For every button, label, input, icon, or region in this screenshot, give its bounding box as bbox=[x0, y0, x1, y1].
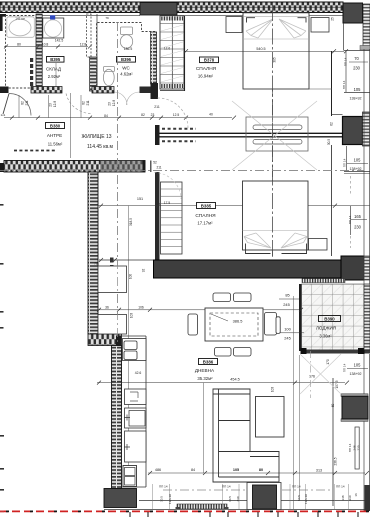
east wall window boundary bedroom2 bbox=[344, 171, 370, 173]
pillow corner brackets bbox=[247, 18, 307, 23]
svg-text:230: 230 bbox=[353, 66, 361, 71]
bottom wall hatch under storage bbox=[31, 87, 62, 94]
bedroom1 pillow right (fan) bbox=[279, 19, 306, 38]
east wall window boundary lines bedroom1 bbox=[344, 50, 370, 52]
bedroom2 label box В385 bbox=[197, 203, 216, 209]
kitchen fridge bbox=[125, 431, 147, 462]
bathtub bbox=[7, 17, 35, 38]
east facade edge lines bbox=[363, 49, 365, 284]
loggia label box В390 bbox=[319, 316, 341, 322]
left exterior wall upper segment (hatched) bbox=[88, 172, 98, 334]
svg-text:170: 170 bbox=[326, 359, 330, 365]
svg-text:2.92м²: 2.92м² bbox=[48, 74, 61, 79]
svg-text:ЖИЛИЩЕ 13: ЖИЛИЩЕ 13 bbox=[81, 134, 111, 140]
bedroom1 nightstand right bbox=[311, 18, 329, 33]
svg-text:12.8: 12.8 bbox=[112, 100, 116, 106]
bedroom1 nightstand left bbox=[226, 17, 242, 33]
svg-text:10.8: 10.8 bbox=[42, 42, 49, 46]
svg-text:230: 230 bbox=[357, 445, 361, 450]
dining chairs top bbox=[213, 293, 231, 302]
svg-text:10.5: 10.5 bbox=[160, 496, 164, 502]
svg-text:79: 79 bbox=[105, 16, 109, 20]
storage dimension line bbox=[4, 45, 92, 49]
svg-text:11.56м²: 11.56м² bbox=[48, 141, 63, 146]
loggia corner posts bbox=[301, 348, 307, 354]
east hatched strip at column bbox=[363, 112, 370, 146]
svg-text:ПП 14: ПП 14 bbox=[222, 485, 231, 489]
svg-text:92: 92 bbox=[142, 269, 146, 273]
east hatch next to band B bbox=[364, 256, 370, 280]
bottom wall hatch under WC left bbox=[92, 87, 114, 94]
svg-text:23: 23 bbox=[151, 113, 155, 117]
left exterior wall lower segment (hatched) bbox=[112, 346, 122, 489]
red section line bottom bbox=[0, 510, 370, 512]
loggia floor grid bbox=[302, 284, 364, 351]
svg-text:305: 305 bbox=[273, 57, 277, 63]
svg-text:82: 82 bbox=[21, 101, 25, 105]
svg-text:10.5: 10.5 bbox=[297, 495, 301, 501]
extension line below loggia wall bbox=[299, 355, 301, 500]
bedroom1 dimension line 540.5 bbox=[184, 50, 344, 52]
svg-text:105: 105 bbox=[354, 363, 362, 368]
bottom wall lines bbox=[139, 500, 370, 502]
wall between bathroom and storage (hatched) bbox=[36, 14, 42, 89]
svg-text:ПП 14: ПП 14 bbox=[348, 215, 352, 224]
sofa L-shape bbox=[213, 389, 279, 482]
svg-text:17.5: 17.5 bbox=[164, 201, 170, 205]
svg-text:3.36м²: 3.36м² bbox=[319, 334, 332, 339]
dining table bbox=[205, 308, 263, 341]
svg-text:105: 105 bbox=[233, 468, 239, 472]
dark wall band right raised segment bbox=[341, 256, 364, 280]
WC east wall hatched bbox=[151, 32, 157, 84]
blue fixture mark bbox=[50, 15, 55, 19]
svg-text:70: 70 bbox=[354, 56, 359, 61]
svg-text:40: 40 bbox=[209, 113, 213, 117]
svg-text:151: 151 bbox=[137, 197, 143, 201]
svg-text:80: 80 bbox=[17, 42, 21, 46]
loggia west wall bbox=[299, 284, 302, 351]
WC door double arc bbox=[114, 92, 140, 105]
svg-text:454.5: 454.5 bbox=[230, 378, 240, 382]
svg-text:245: 245 bbox=[284, 336, 291, 341]
boiler box in storage bbox=[43, 18, 64, 38]
svg-text:165: 165 bbox=[354, 214, 362, 219]
svg-text:ДНЕВНА: ДНЕВНА bbox=[195, 368, 215, 373]
svg-text:1х1: 1х1 bbox=[1, 113, 6, 117]
kitchen sink unit bbox=[123, 339, 147, 361]
bedroom2 foot brackets bbox=[246, 244, 307, 254]
window glazing dashed bedroom2 bbox=[350, 206, 352, 235]
svg-text:42.6: 42.6 bbox=[135, 371, 142, 375]
svg-text:ПП 14: ПП 14 bbox=[343, 158, 347, 167]
svg-text:СКЛАД: СКЛАД bbox=[46, 67, 61, 72]
extension line x203 bbox=[203, 383, 205, 473]
svg-text:ЛОДЖИЯ: ЛОДЖИЯ bbox=[316, 326, 336, 331]
kitchen tall cabinet 2 bbox=[98, 315, 127, 335]
bottom wall of small rooms: left black segment bbox=[0, 87, 9, 94]
svg-text:148: 148 bbox=[341, 495, 345, 500]
band end post bbox=[143, 161, 146, 173]
svg-text:12.8: 12.8 bbox=[53, 101, 57, 107]
svg-text:В385: В385 bbox=[201, 203, 212, 208]
loggia door leaf bbox=[276, 317, 280, 334]
bedroom2 dimension line bbox=[98, 205, 370, 207]
bottom dimension line mid bbox=[148, 472, 365, 474]
lintel line left of column bbox=[332, 114, 343, 116]
svg-text:100: 100 bbox=[129, 274, 133, 280]
corridor dimension line bbox=[4, 117, 232, 119]
X cross over closet zone bbox=[232, 101, 317, 170]
svg-text:ПП 14: ПП 14 bbox=[343, 363, 347, 372]
sliding door track dashes bbox=[162, 128, 196, 130]
bedroom1 label box В378 bbox=[200, 57, 219, 63]
svg-text:138+92: 138+92 bbox=[349, 97, 361, 101]
bedroom2 west wall bbox=[155, 172, 160, 260]
dining chairs bottom bbox=[215, 348, 232, 357]
bedroom2 wardrobe bbox=[161, 182, 183, 254]
svg-text:16: 16 bbox=[354, 493, 358, 497]
living room label box В386 bbox=[199, 359, 218, 365]
shaft bottom line bbox=[160, 90, 185, 92]
living dimension line 454.5/176 bbox=[97, 382, 345, 384]
bedroom2 pillow zone line bbox=[243, 230, 309, 232]
leader line below storage label bbox=[55, 63, 57, 87]
dining chair right bbox=[265, 313, 277, 336]
svg-text:105: 105 bbox=[354, 87, 362, 92]
bathroom tiled wall (dashed) bbox=[6, 16, 37, 89]
svg-text:АНТРЕ: АНТРЕ bbox=[47, 133, 62, 138]
bedroom1 west wall line bbox=[184, 16, 186, 91]
axis overlays bbox=[117, 22, 119, 345]
hallway south hatched wall band bbox=[4, 161, 145, 173]
svg-text:82: 82 bbox=[82, 101, 86, 105]
svg-text:В395: В395 bbox=[50, 57, 61, 62]
svg-text:211: 211 bbox=[86, 100, 90, 105]
bedroom2 door swing arc bbox=[154, 172, 181, 199]
svg-text:4.62м²: 4.62м² bbox=[120, 71, 133, 76]
main dark wall band between bedroom2 and living bbox=[154, 260, 346, 278]
WC east wall black post bbox=[151, 83, 159, 99]
axis line horizontal bottom (dash-dot) bbox=[163, 489, 332, 491]
dining dimension line bbox=[97, 309, 299, 311]
bedroom1 pillow left (fan) bbox=[246, 19, 273, 38]
svg-text:35.32м²: 35.32м² bbox=[197, 376, 213, 381]
svg-text:103: 103 bbox=[130, 313, 134, 319]
svg-text:386.5: 386.5 bbox=[233, 319, 243, 324]
svg-text:236.5: 236.5 bbox=[334, 457, 338, 465]
bottom window sill bbox=[177, 504, 227, 509]
entry door arc bbox=[9, 94, 31, 116]
svg-text:211: 211 bbox=[156, 166, 161, 170]
svg-text:17.17м²: 17.17м² bbox=[197, 221, 213, 226]
svg-text:78: 78 bbox=[94, 262, 98, 266]
svg-text:23: 23 bbox=[49, 103, 53, 107]
loggia axis below bbox=[310, 351, 312, 398]
svg-text:12.6: 12.6 bbox=[164, 47, 170, 51]
svg-text:12.5: 12.5 bbox=[173, 113, 180, 117]
bedroom2 nightstand right bbox=[309, 239, 328, 251]
bottom wall black segment right of WC door bbox=[140, 87, 151, 94]
ventilation shaft bbox=[160, 16, 184, 89]
svg-text:130+92: 130+92 bbox=[168, 494, 172, 504]
top wall dark segment above WC/shaft bbox=[140, 3, 177, 16]
left margin small marks bbox=[0, 204, 4, 491]
svg-text:62: 62 bbox=[330, 122, 334, 126]
storage room label box В395 bbox=[47, 57, 65, 63]
loggia east hatched wall bbox=[364, 284, 370, 350]
svg-text:23: 23 bbox=[108, 102, 112, 106]
axis line vertical C through bedrooms bbox=[272, 5, 274, 258]
kitchen unit with inner square bbox=[125, 408, 147, 428]
svg-text:В378: В378 bbox=[204, 58, 215, 63]
bedroom2 bed bbox=[243, 181, 309, 250]
svg-text:30.5: 30.5 bbox=[327, 139, 331, 145]
svg-text:245: 245 bbox=[283, 302, 290, 307]
svg-text:В390: В390 bbox=[324, 316, 335, 321]
svg-text:ПП 14: ПП 14 bbox=[344, 57, 348, 66]
svg-text:211: 211 bbox=[154, 105, 160, 109]
bedroom1 pillow zone line bbox=[243, 38, 309, 40]
svg-text:52: 52 bbox=[153, 161, 157, 165]
dimension chain line x128.5 bbox=[128, 206, 130, 473]
svg-text:230: 230 bbox=[236, 496, 240, 501]
wall jog connector bbox=[88, 334, 122, 346]
block edge line bbox=[343, 23, 345, 51]
kitchen double oven unit bbox=[123, 466, 137, 487]
svg-text:186.5: 186.5 bbox=[124, 47, 133, 51]
corridor door jamb marks bbox=[110, 258, 114, 263]
bedroom1 bed head line bbox=[243, 16, 309, 18]
kitchen counter edge bbox=[145, 336, 147, 487]
dining chair left bbox=[188, 314, 198, 335]
svg-text:105: 105 bbox=[354, 158, 362, 163]
storage door arc bbox=[66, 94, 92, 114]
bathroom sliding door marks bbox=[30, 58, 33, 86]
wardrobe on partition bbox=[246, 117, 308, 151]
svg-text:84: 84 bbox=[191, 468, 195, 472]
svg-text:80: 80 bbox=[259, 468, 263, 472]
svg-text:ПП 14: ПП 14 bbox=[336, 485, 345, 489]
bathroom corner wall top-left bbox=[0, 14, 6, 31]
hallway closet dashed row bbox=[14, 150, 55, 152]
leader lines door tags bbox=[18, 95, 20, 118]
boiler circle bbox=[44, 20, 61, 37]
hallway label box В380 bbox=[46, 123, 65, 129]
svg-text:157.5: 157.5 bbox=[335, 380, 339, 388]
east concrete column mid bbox=[343, 117, 363, 145]
svg-text:230: 230 bbox=[348, 495, 352, 500]
svg-text:25: 25 bbox=[331, 17, 335, 21]
X mark below loggia bbox=[300, 354, 341, 394]
axis line vertical A (dash-dot) bbox=[117, 22, 119, 345]
WC bidet left bbox=[103, 67, 114, 86]
concrete column top-right bbox=[343, 3, 363, 23]
svg-text:142 см: 142 см bbox=[15, 17, 24, 21]
svg-text:313: 313 bbox=[316, 469, 322, 473]
bedroom2 pillow left (fan) bbox=[244, 233, 271, 248]
svg-text:В380: В380 bbox=[50, 123, 61, 128]
coffee table bbox=[256, 397, 285, 438]
exterior wall top hatched band bbox=[0, 2, 343, 13]
bedroom1 east wall face bbox=[331, 51, 333, 116]
kitchen tall cabinet 1 bbox=[98, 266, 127, 293]
svg-text:114.45 кв.м: 114.45 кв.м bbox=[87, 144, 114, 150]
loggia bottom wall bbox=[301, 350, 370, 354]
door leaf at bedroom2 entry bbox=[150, 161, 152, 173]
svg-text:ПП 14: ПП 14 bbox=[159, 485, 168, 489]
bedroom1 bed bbox=[243, 13, 309, 89]
WC label box В396 bbox=[117, 57, 136, 63]
svg-text:176: 176 bbox=[309, 375, 315, 379]
living east wall interior line bbox=[332, 378, 334, 506]
svg-text:85: 85 bbox=[285, 293, 289, 298]
concrete block bottom of left wall bbox=[104, 489, 137, 508]
svg-text:СПАЛНЯ: СПАЛНЯ bbox=[195, 213, 216, 219]
jog corner block bbox=[116, 336, 122, 346]
east wall face below column bbox=[331, 145, 333, 256]
svg-text:36: 36 bbox=[105, 306, 109, 310]
svg-text:318.5: 318.5 bbox=[129, 218, 133, 226]
bed1 foot line bbox=[243, 88, 332, 90]
extension line x70.5 bbox=[70, 93, 72, 158]
svg-text:230: 230 bbox=[354, 225, 362, 230]
svg-text:103: 103 bbox=[271, 387, 275, 393]
kitchen stove bbox=[125, 389, 147, 405]
partition wall bedroom1/bedroom2 bbox=[155, 125, 343, 145]
svg-text:ПП 14: ПП 14 bbox=[342, 80, 346, 89]
svg-text:84: 84 bbox=[104, 114, 108, 118]
svg-text:12.8: 12.8 bbox=[80, 42, 87, 46]
svg-text:10.5: 10.5 bbox=[228, 496, 232, 502]
corridor bottom line bbox=[99, 259, 156, 261]
axis line horizontal (dash-dot) bbox=[0, 170, 364, 172]
svg-text:130+92: 130+92 bbox=[304, 494, 308, 504]
svg-text:486: 486 bbox=[155, 468, 161, 472]
extension line x293.5 bbox=[293, 296, 295, 509]
interior face line of top wall bbox=[36, 15, 140, 17]
svg-text:60: 60 bbox=[331, 404, 335, 408]
gray cap below right wall bbox=[360, 46, 370, 51]
TV wall pier dark bbox=[341, 394, 368, 397]
bottom concrete block mid bbox=[247, 483, 281, 510]
svg-text:142.5: 142.5 bbox=[55, 39, 64, 43]
WC toilet top bbox=[120, 27, 132, 48]
svg-text:В396: В396 bbox=[121, 57, 132, 62]
bottom tick marks bbox=[130, 512, 358, 517]
svg-text:ПП 14: ПП 14 bbox=[348, 443, 352, 452]
svg-text:82: 82 bbox=[141, 113, 145, 117]
svg-text:106: 106 bbox=[138, 306, 144, 310]
bedroom2 pillow right (fan) bbox=[281, 233, 307, 248]
svg-text:540.5: 540.5 bbox=[256, 47, 265, 51]
bedroom1 door swing arc bbox=[158, 98, 189, 128]
window tag bracket lines bbox=[153, 484, 349, 509]
svg-text:В386: В386 bbox=[203, 359, 214, 364]
svg-text:WC: WC bbox=[122, 66, 130, 71]
wall between storage and WC bbox=[87, 14, 92, 57]
window glazing rect east bbox=[355, 427, 359, 469]
svg-text:138+92: 138+92 bbox=[349, 372, 361, 376]
svg-text:100: 100 bbox=[284, 327, 291, 332]
bottom-right wall stub bbox=[365, 485, 370, 511]
right exterior hatched wall top bbox=[363, 4, 370, 49]
WC tiled wall outline (dashed) bbox=[97, 23, 157, 91]
svg-text:16.94м²: 16.94м² bbox=[198, 74, 214, 79]
window sill strip right of band bbox=[302, 279, 345, 283]
svg-text:СПАЛНЯ: СПАЛНЯ bbox=[196, 66, 217, 72]
